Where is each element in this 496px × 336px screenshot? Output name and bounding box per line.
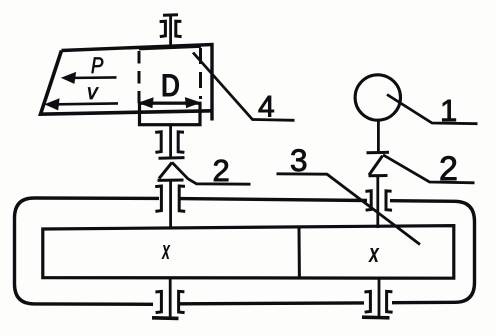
- shaft into gearbox (left): [169, 181, 172, 229]
- bearing at gearbox top (left): [155, 186, 185, 211]
- drum lower rim: [140, 103, 201, 125]
- leader line 2 (right): [383, 155, 475, 183]
- arrow v: [46, 99, 119, 110]
- arrow P: [62, 73, 117, 84]
- shaft stub below gearbox (right): [378, 279, 381, 318]
- bearing on drum shaft (top): [160, 21, 182, 36]
- bearing at gearbox top (right): [365, 191, 392, 210]
- leader line 1: [387, 95, 478, 124]
- drum top edge: [139, 46, 201, 49]
- gear block (inner casing): [43, 226, 454, 279]
- leader line 3: [277, 174, 421, 245]
- leader line 2 (left): [172, 162, 251, 184]
- motor 1: [355, 75, 400, 120]
- drum hidden edge (right, dashed): [199, 48, 202, 99]
- bearing at gearbox bottom (right): [364, 291, 392, 312]
- conveyor belt: [41, 45, 213, 121]
- gearbox housing: [15, 198, 475, 304]
- shaft into gearbox (right): [376, 177, 379, 229]
- svg-text:4: 4: [258, 91, 275, 124]
- svg-text:P: P: [91, 54, 104, 78]
- bearing at gearbox bottom (left): [155, 291, 184, 312]
- svg-text:1: 1: [440, 93, 457, 128]
- gear stage divider: [298, 228, 301, 278]
- frame support cap above drum: [163, 15, 178, 48]
- dimension arrows for D: [140, 98, 200, 108]
- output shaft below gearbox (left): [169, 279, 172, 319]
- support cap (bottom right): [362, 315, 390, 319]
- leader line 4: [193, 53, 295, 121]
- motor shaft: [377, 121, 380, 153]
- drum shaft (lower segment): [169, 125, 172, 158]
- svg-text:v: v: [87, 81, 99, 104]
- svg-text:2: 2: [439, 150, 458, 188]
- svg-text:3: 3: [290, 142, 308, 178]
- support cap (bottom left): [152, 316, 179, 320]
- drum hidden edge (left, dashed): [138, 51, 141, 103]
- coupling (left): [158, 158, 185, 181]
- coupling (right): [367, 152, 390, 176]
- bearing below drum: [155, 132, 184, 153]
- svg-text:2: 2: [213, 153, 230, 188]
- svg-text:D: D: [161, 68, 180, 104]
- svg-text:x: x: [161, 234, 170, 265]
- svg-text:x: x: [368, 237, 380, 268]
